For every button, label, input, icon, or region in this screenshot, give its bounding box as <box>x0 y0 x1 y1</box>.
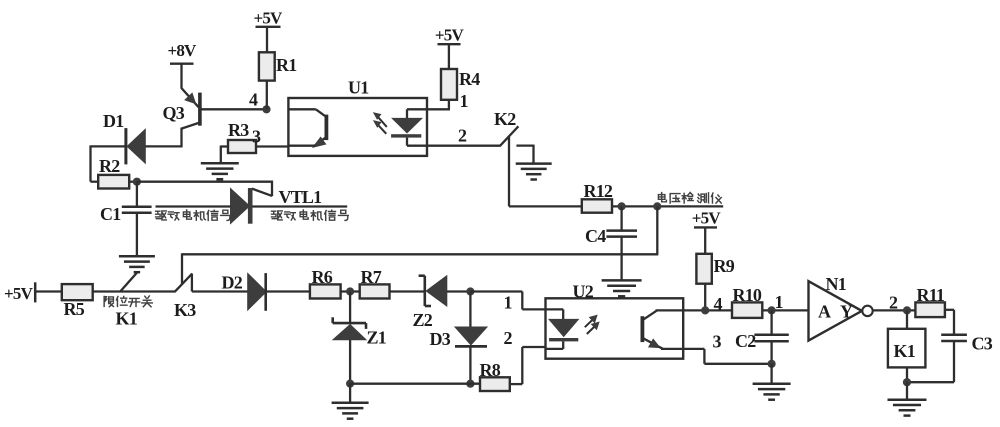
svg-text:+5V: +5V <box>435 26 465 45</box>
wire detector node down and left to K3 <box>182 206 658 254</box>
svg-text:R12: R12 <box>584 181 613 201</box>
opto-coupler U1 <box>288 78 427 156</box>
svg-text:+8V: +8V <box>167 41 197 60</box>
svg-text:3: 3 <box>713 332 722 352</box>
resistor R10 <box>732 285 762 318</box>
svg-text:K2: K2 <box>494 109 516 129</box>
wire node to U2 pin1 <box>470 292 545 310</box>
wire bottom rail <box>350 383 480 385</box>
resistor R9 <box>696 254 734 284</box>
relay K1 <box>888 329 926 368</box>
U2 light arrows <box>585 315 599 334</box>
resistor R2 <box>98 156 129 189</box>
diode D3 <box>430 292 488 384</box>
svg-text:K1: K1 <box>116 309 138 329</box>
svg-text:R11: R11 <box>917 285 945 305</box>
power +8V <box>167 41 197 89</box>
zener Z2 <box>413 276 447 330</box>
wire R8 to U2 pin2 <box>510 347 546 384</box>
wire to ground <box>906 382 908 400</box>
wire D1 anode to Q3 emitter <box>145 145 182 147</box>
svg-text:R7: R7 <box>361 267 382 287</box>
ground C1/K1 <box>119 256 155 272</box>
svg-text:A: A <box>818 302 831 322</box>
svg-text:VTL1: VTL1 <box>279 187 323 207</box>
node 1 (R10/C2) <box>768 292 784 315</box>
resistor R6 <box>310 267 341 299</box>
svg-text:R6: R6 <box>312 267 333 287</box>
wire motor-signal right <box>253 205 348 207</box>
switch K2 <box>494 109 518 146</box>
resistor R5 <box>62 284 93 319</box>
capacitor C3 <box>907 334 993 383</box>
svg-text:D3: D3 <box>430 329 451 349</box>
svg-text:R8: R8 <box>480 360 501 380</box>
node 2 <box>889 293 911 315</box>
svg-text:R10: R10 <box>733 285 762 305</box>
svg-text:1: 1 <box>460 91 469 111</box>
inverter N1 <box>809 274 873 341</box>
svg-text:R3: R3 <box>228 120 249 140</box>
svg-text:Z1: Z1 <box>367 328 387 348</box>
node Z1 bottom <box>346 380 354 388</box>
svg-text:D1: D1 <box>103 111 124 131</box>
resistor R11 <box>915 285 945 317</box>
U1 LED <box>391 109 427 145</box>
svg-text:Y: Y <box>840 302 853 322</box>
svg-text:R2: R2 <box>99 156 120 176</box>
svg-text:C4: C4 <box>585 226 606 246</box>
opto-coupler U2 <box>546 282 684 359</box>
U1 light arrows <box>374 113 387 134</box>
svg-text:K1: K1 <box>894 341 916 361</box>
svg-text:3: 3 <box>252 127 261 147</box>
wire R1 to node 4 <box>266 81 268 110</box>
label 驱动电机信号 (left) <box>156 210 231 221</box>
node U2 pin4 <box>683 294 732 315</box>
label 驱动电机信号 (right) <box>272 210 349 221</box>
resistor R8 <box>480 360 510 391</box>
svg-text:Q3: Q3 <box>163 103 185 123</box>
svg-text:4: 4 <box>714 294 723 314</box>
node R2/C1 <box>133 178 141 186</box>
wire R11 to C3 <box>945 310 954 335</box>
wire R7 to Z2 <box>390 290 425 292</box>
switch K1 (limit switch) <box>116 272 138 328</box>
wire Z2 to node <box>447 290 471 292</box>
svg-text:+5V: +5V <box>253 9 283 28</box>
zener Z1 <box>333 292 387 384</box>
ground Z1 <box>332 403 369 419</box>
wire R3 to U1 pin3 <box>256 145 288 147</box>
svg-text:U1: U1 <box>348 78 369 98</box>
U2 LED <box>546 309 579 349</box>
ground C4 <box>602 280 642 296</box>
ground K2 <box>516 164 552 180</box>
node detector <box>653 202 661 210</box>
wire Q3 collector to node 4 <box>200 108 267 110</box>
svg-text:2: 2 <box>504 328 513 348</box>
wire U1 pin2 to K2 <box>427 145 500 147</box>
svg-text:R4: R4 <box>459 69 480 89</box>
svg-text:1: 1 <box>775 292 784 312</box>
wire R4 to U1 pin1 <box>427 100 450 110</box>
svg-text:4: 4 <box>249 90 258 110</box>
diode D1 <box>103 111 145 164</box>
wire R12 to detector <box>612 205 723 207</box>
capacitor C1 <box>100 182 152 257</box>
wire R5 to K3 <box>93 290 176 292</box>
ground K1 <box>888 400 927 416</box>
wire Z1 to ground <box>349 384 351 403</box>
wire R9 to node 4 <box>704 284 706 311</box>
svg-text:C2: C2 <box>735 331 756 351</box>
node C4 <box>618 202 626 210</box>
node R6/R7 <box>346 287 354 295</box>
wire K1 to node <box>906 367 908 382</box>
svg-text:D2: D2 <box>222 273 243 293</box>
svg-text:+5V: +5V <box>692 209 722 228</box>
svg-text:2: 2 <box>458 126 467 146</box>
svg-text:C3: C3 <box>972 334 993 354</box>
wire N1 out to node 2 <box>873 309 916 311</box>
wire C2 to ground <box>770 364 772 384</box>
ground C2 <box>753 384 791 400</box>
wire R3 to ground <box>221 146 228 164</box>
node K1 bottom <box>903 378 911 386</box>
ground R3 <box>201 163 239 179</box>
wire K2 down to R12 <box>509 136 582 207</box>
node Z2/D3 <box>466 287 474 295</box>
svg-text:N1: N1 <box>826 274 847 294</box>
power +5V (R1) <box>253 9 283 53</box>
node C2 bottom <box>768 360 776 368</box>
wire D2 to R6 <box>266 290 310 292</box>
node D3 bottom <box>466 380 474 388</box>
wire R6-R7 <box>341 290 360 292</box>
svg-text:+5V: +5V <box>4 284 34 303</box>
wire node to VTL1 <box>137 181 273 183</box>
power +5V (left rail) <box>4 282 62 303</box>
wire U2 pin3 <box>683 332 771 364</box>
wire node2 to K1 <box>906 310 908 328</box>
capacitor C2 <box>735 310 789 363</box>
svg-text:2: 2 <box>889 293 898 313</box>
transistor Q3 <box>163 88 200 147</box>
diode D2 <box>222 273 267 311</box>
capacitor C4 <box>585 206 637 280</box>
svg-text:1: 1 <box>504 293 513 313</box>
resistor R4 <box>441 69 480 100</box>
U2 phototransistor <box>642 310 683 349</box>
svg-text:Z2: Z2 <box>413 310 433 330</box>
wire D1 cathode down to R2 <box>91 145 126 181</box>
svg-text:U2: U2 <box>573 282 594 302</box>
K2 ground arm <box>516 145 533 164</box>
svg-text:K3: K3 <box>174 300 196 320</box>
svg-text:R9: R9 <box>714 256 735 276</box>
svg-text:R1: R1 <box>276 55 297 75</box>
svg-text:R5: R5 <box>64 299 85 319</box>
resistor R7 <box>360 267 390 299</box>
label 电压检测仪 <box>658 193 721 204</box>
resistor R1 <box>259 52 297 80</box>
wire K3 to D2 <box>192 290 248 292</box>
photo-thyristor VTL1 <box>231 181 323 224</box>
wire R2 to node <box>129 181 137 183</box>
switch K3 <box>174 253 196 320</box>
wire motor-signal left <box>156 205 231 207</box>
node 4 <box>249 90 271 114</box>
svg-text:C1: C1 <box>100 204 121 224</box>
label 限位开关 <box>104 296 152 307</box>
resistor R12 <box>582 181 613 213</box>
power +5V (R4) <box>435 26 465 70</box>
U1 phototransistor <box>288 109 326 147</box>
resistor R3 <box>228 120 261 153</box>
power +5V (R9) <box>692 209 722 254</box>
wire R10 to N1 <box>762 309 809 311</box>
